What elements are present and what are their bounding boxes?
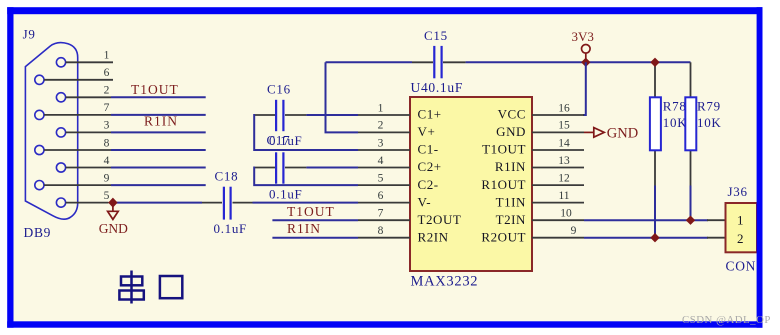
svg-text:11: 11: [558, 190, 569, 202]
junction R78 top on 3V3 wire: [650, 58, 659, 67]
svg-text:6: 6: [378, 190, 384, 202]
svg-text:4: 4: [104, 155, 110, 167]
svg-text:T2IN: T2IN: [496, 212, 526, 227]
wire row4 from J9 pin4: [111, 167, 206, 169]
U40 left pin names: [418, 107, 462, 245]
svg-text:0.1uF: 0.1uF: [269, 186, 302, 201]
svg-text:C18: C18: [215, 169, 239, 184]
svg-text:5: 5: [104, 190, 110, 202]
svg-text:9: 9: [104, 172, 110, 184]
svg-text:1: 1: [104, 50, 110, 62]
svg-text:6: 6: [104, 67, 110, 79]
U40 right pin stubs 16-9: [532, 115, 584, 238]
junction on J9 pin5: [108, 198, 117, 208]
svg-text:13: 13: [558, 155, 570, 167]
IC U40 MAX3232 body: [410, 97, 532, 271]
wire C16 right to U40 pin1: [306, 114, 358, 116]
svg-text:DB9: DB9: [24, 225, 52, 240]
wire row8 from J9 pin8: [111, 149, 206, 151]
svg-text:C2+: C2+: [418, 159, 442, 174]
svg-text:12: 12: [558, 172, 570, 184]
junction at 3V3 node: [581, 58, 590, 67]
svg-text:C2-: C2-: [418, 177, 439, 192]
svg-text:C15: C15: [424, 28, 448, 43]
svg-text:C16: C16: [267, 82, 291, 97]
svg-text:R1OUT: R1OUT: [481, 177, 526, 192]
wire U40 pin9 to J36 pin2: [584, 237, 708, 239]
wire row7 from J9 pin7: [111, 114, 206, 116]
svg-text:8: 8: [378, 225, 384, 237]
wire C15 right to 3V3 node: [466, 61, 691, 63]
svg-text:R1IN: R1IN: [495, 159, 526, 174]
svg-text:R79: R79: [697, 98, 721, 113]
J9 pin 5 circle: [56, 198, 65, 207]
J9 pin numbers: [104, 50, 110, 202]
svg-text:R78: R78: [663, 98, 687, 113]
svg-text:GND: GND: [607, 126, 638, 142]
wire V+ net: C15 left down to U40 pin2: [326, 62, 359, 132]
wire C16 left down to U40 pin3: [254, 115, 358, 150]
svg-text:R2OUT: R2OUT: [481, 229, 526, 244]
wire to U40 pin7 net T1OUT: [272, 219, 358, 221]
svg-text:C17: C17: [267, 133, 291, 148]
svg-text:2: 2: [104, 85, 110, 97]
wire 3V3 down to U40 pin16: [583, 62, 586, 115]
svg-text:VCC: VCC: [498, 107, 526, 122]
svg-text:CSDN @ADL_OP: CSDN @ADL_OP: [682, 314, 771, 326]
wire row2 net T1OUT from J9 pin2: [111, 96, 206, 98]
svg-text:1: 1: [378, 102, 384, 114]
J9 pin 6 circle: [35, 75, 44, 84]
capacitor C17: [255, 152, 306, 183]
resistor R79: [685, 62, 696, 220]
wire GND net from J9 pin5 to C18: [117, 202, 203, 204]
svg-text:R1IN: R1IN: [144, 113, 178, 128]
J9 pin 4 circle: [56, 163, 65, 172]
svg-text:16: 16: [558, 102, 570, 114]
wire U40 pin10 to J36 pin1: [584, 219, 708, 221]
svg-text:15: 15: [558, 120, 570, 132]
resistor R78: [650, 62, 661, 237]
svg-text:4: 4: [378, 155, 384, 167]
ground symbol GND: [108, 206, 119, 220]
wire row9 from J9 pin9: [111, 184, 206, 186]
J9 pin 3 circle: [56, 128, 65, 137]
svg-text:7: 7: [378, 208, 384, 220]
capacitor C18: [202, 187, 253, 220]
wire top net from V+ corner to C15: [326, 61, 413, 63]
power symbol 3V3: [582, 45, 591, 63]
svg-text:10K: 10K: [663, 115, 688, 130]
svg-text:U40.1uF: U40.1uF: [411, 80, 464, 95]
U40 right pin names: [481, 107, 526, 245]
svg-text:3: 3: [104, 120, 110, 132]
svg-text:R2IN: R2IN: [418, 229, 449, 244]
connector J36 body: [726, 203, 758, 252]
junction R79 bottom on pin10 wire: [686, 216, 695, 225]
svg-text:1: 1: [737, 213, 744, 228]
wire C18 to U40 pin6: [253, 202, 359, 204]
svg-text:J9: J9: [23, 26, 36, 41]
U40 left pin numbers: [378, 102, 384, 237]
svg-text:T1OUT: T1OUT: [131, 82, 179, 97]
svg-text:MAX3232: MAX3232: [411, 273, 479, 289]
svg-text:C1+: C1+: [418, 107, 442, 122]
J9 pin leads: [44, 62, 113, 202]
svg-text:T1OUT: T1OUT: [482, 142, 526, 157]
J36 pin 1 lead: [707, 219, 726, 221]
wire C17 left down to U40 pin5: [254, 168, 358, 186]
wire to U40 pin8 net R1IN: [272, 237, 358, 239]
schematic title 串口: [119, 271, 182, 304]
capacitor C16: [255, 100, 306, 131]
J9 pin 9 circle: [35, 181, 44, 190]
svg-text:V+: V+: [418, 124, 436, 139]
junction R78 bottom on pin9 wire: [650, 233, 659, 242]
svg-text:GND: GND: [496, 124, 526, 139]
svg-text:10K: 10K: [697, 115, 722, 130]
svg-text:9: 9: [571, 225, 577, 237]
J9 pin 2 circle: [56, 93, 65, 102]
svg-text:0.1uF: 0.1uF: [214, 221, 247, 236]
svg-text:2: 2: [737, 231, 744, 246]
svg-text:J36: J36: [728, 184, 748, 199]
svg-text:GND: GND: [99, 221, 128, 236]
svg-text:R1IN: R1IN: [287, 221, 321, 236]
svg-text:14: 14: [558, 137, 570, 149]
svg-text:3: 3: [378, 137, 384, 149]
svg-text:3V3: 3V3: [572, 29, 594, 44]
capacitor C15: [412, 46, 466, 78]
wire C17 right to U40 pin4: [306, 167, 358, 169]
J36 pin 2 lead: [707, 237, 726, 239]
svg-text:8: 8: [104, 137, 110, 149]
svg-text:10: 10: [560, 208, 572, 220]
J9 pin 1 circle: [56, 58, 65, 67]
svg-text:C1-: C1-: [418, 142, 439, 157]
svg-text:T2OUT: T2OUT: [418, 212, 462, 227]
J9 pin 8 circle: [35, 145, 44, 154]
U40 left pin stubs 1-8: [358, 115, 410, 238]
connector J9 (DB9) outline: [25, 43, 77, 220]
svg-text:T1OUT: T1OUT: [287, 204, 335, 219]
U40 right pin numbers: [558, 102, 576, 237]
svg-text:2: 2: [378, 120, 384, 132]
power port GND at U40 pin15: [584, 128, 604, 138]
svg-text:T1IN: T1IN: [496, 194, 526, 209]
wire row3 net R1IN from J9 pin3: [111, 131, 206, 133]
J9 pin 7 circle: [35, 110, 44, 119]
svg-text:7: 7: [104, 102, 110, 114]
svg-text:V-: V-: [418, 194, 432, 209]
svg-text:5: 5: [378, 172, 384, 184]
